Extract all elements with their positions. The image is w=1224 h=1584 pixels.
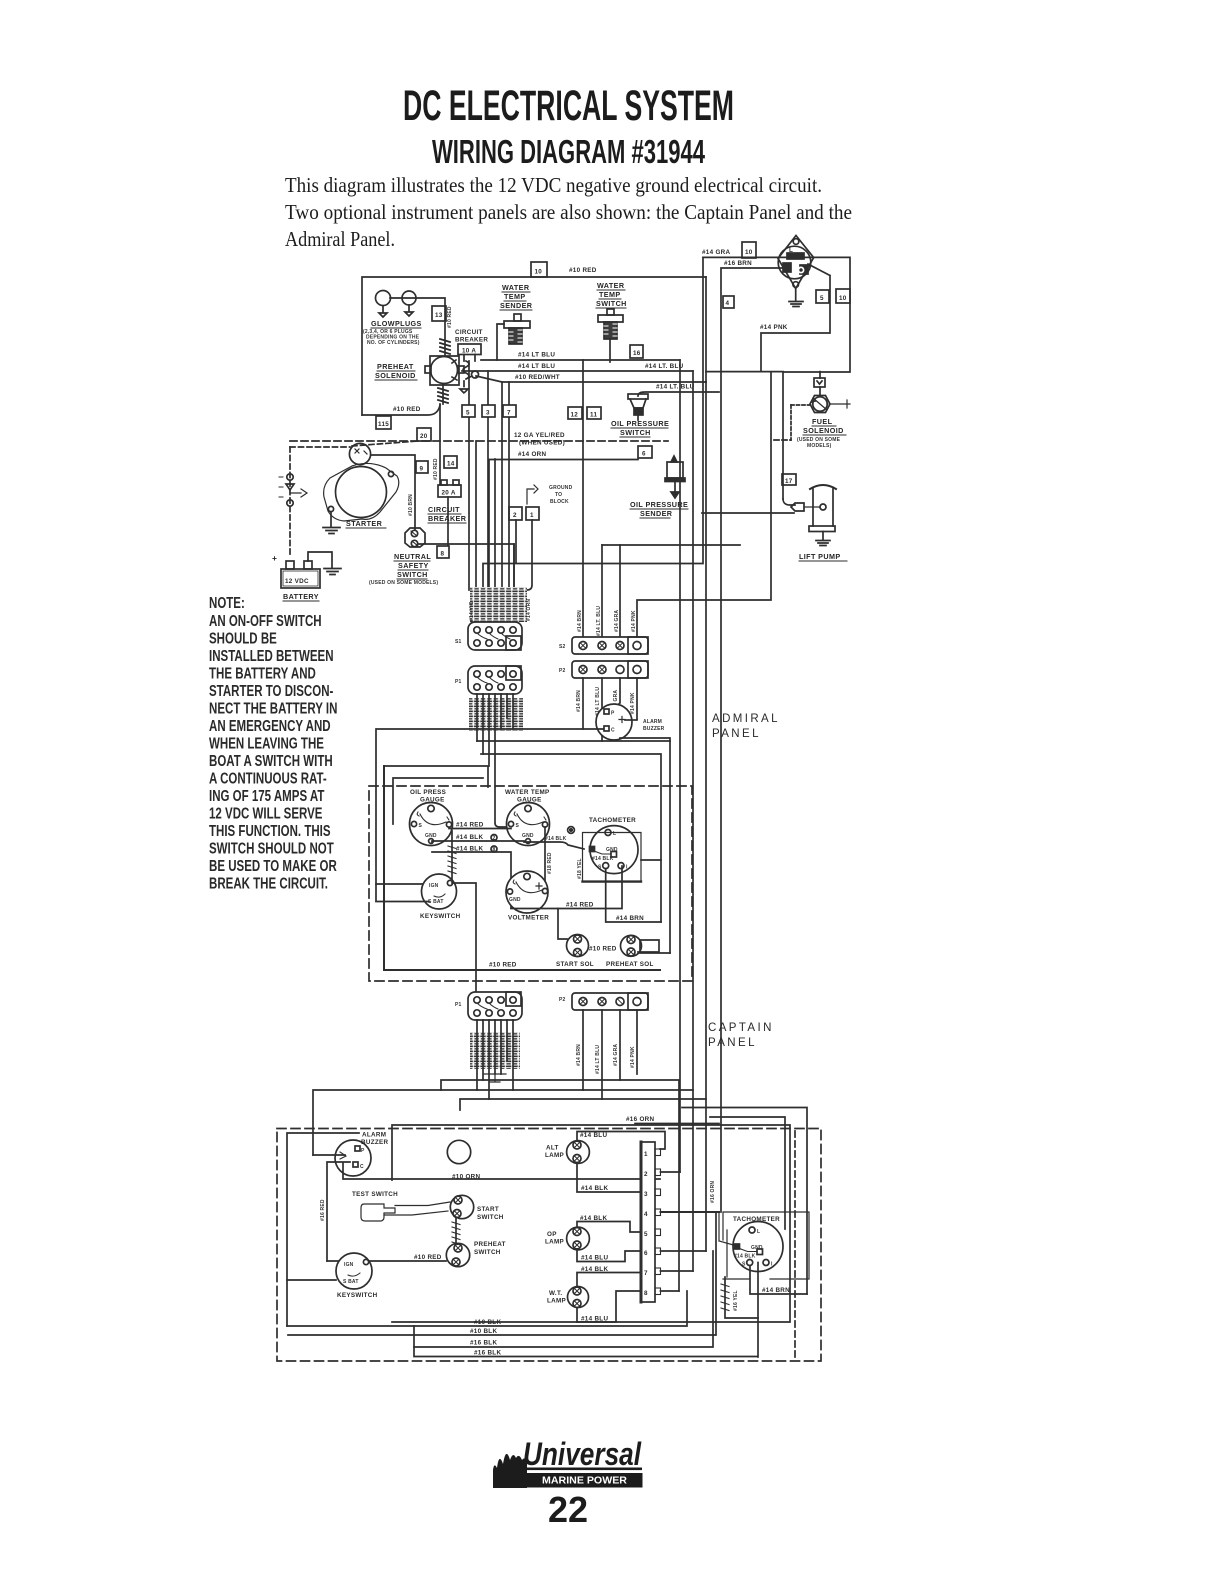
node box 2 [509,507,522,520]
wire into pump [702,512,794,514]
svg-text:20 A: 20 A [442,490,456,497]
svg-text:C: C [360,1164,364,1170]
node box 14 [444,456,457,468]
wire long vertical x680 [679,360,681,1172]
wire-label hatch block above S1 [470,587,527,622]
wire x670 bottom [640,952,670,954]
svg-text:5: 5 [820,295,824,302]
node box 6 [638,446,652,458]
svg-text:START SOL: START SOL [556,961,594,968]
svg-text:12 GA YEL/RED: 12 GA YEL/RED [514,432,565,439]
svg-text:P1: P1 [455,679,462,685]
svg-text:BREAKER: BREAKER [455,337,488,344]
wire y1099 [460,1099,706,1110]
node box 13 [432,306,446,321]
svg-text:S BAT: S BAT [343,1279,359,1285]
node box 5b [816,290,829,303]
Universal Marine Power logo [493,1436,643,1488]
ground to block symbol [527,485,538,504]
svg-text:8: 8 [441,551,445,558]
wire long vertical x693 [692,371,694,1271]
oil pressure sender OPS2 [671,456,677,462]
wire #14 RED gauges [449,828,511,830]
svg-text:SENDER: SENDER [500,301,533,310]
wire right-edge vertical x706 [705,277,707,382]
terminal strip TB1 [641,1142,655,1302]
svg-text:2: 2 [644,1171,648,1178]
wire start sol feed [558,909,567,940]
svg-text:12: 12 [571,412,579,419]
dashed separator line [290,440,668,442]
wire into buzzer [313,1154,345,1156]
svg-text:SHOULD BE: SHOULD BE [209,629,277,647]
svg-text:#18 RED: #18 RED [547,852,553,874]
wire op lamp top [577,1222,641,1233]
svg-text:#14 LT BLU: #14 LT BLU [518,352,555,359]
wire #16 YEL vertical hatched [725,1277,758,1318]
wt lamp L3 [568,1287,589,1308]
svg-text:#14 LT BLU: #14 LT BLU [595,1045,601,1074]
preheat solenoid lamp PS2 [621,935,642,956]
svg-text:PANEL: PANEL [712,728,761,740]
lift pump LP1 [783,499,795,505]
svg-text:TEMP: TEMP [599,290,621,299]
svg-text:S: S [598,865,602,871]
svg-text:TACHOMETER: TACHOMETER [589,817,636,824]
svg-text:C: C [611,728,615,734]
svg-text:START: START [477,1206,499,1213]
svg-text:PREHEAT: PREHEAT [474,1241,506,1248]
svg-text:7: 7 [644,1270,648,1277]
svg-text:#14 RED: #14 RED [456,822,484,829]
svg-text:#14 BLK: #14 BLK [545,836,567,842]
svg-text:NEUTRAL: NEUTRAL [394,552,431,561]
fuel solenoid FS1 [814,378,825,387]
svg-text:20: 20 [420,433,428,440]
svg-text:Two optional instrument panels: Two optional instrument panels are also … [285,200,852,224]
starter M1 solenoid [349,443,370,464]
wire y1117 [710,1117,785,1229]
svg-text:(USED ON SOME MODELS): (USED ON SOME MODELS) [369,580,438,586]
svg-text:#16 RED: #16 RED [320,1199,326,1221]
svg-text:#16 YEL: #16 YEL [733,1290,739,1311]
wires below P1 fanning [477,694,513,827]
svg-text:#14 BLK: #14 BLK [581,1185,608,1192]
wire tach right to x661 [641,859,661,861]
svg-text:ADMIRAL: ADMIRAL [712,713,780,725]
admiral keyswitch KS1 [422,874,457,909]
svg-text:TO: TO [555,492,562,498]
hatched wire between switches [455,1218,457,1248]
svg-text:IGN: IGN [344,1262,354,1268]
wire wt lamp bottom #14 BLU [577,1291,641,1322]
svg-text:#14 BRN: #14 BRN [576,690,582,712]
svg-text:LAMP: LAMP [545,1239,564,1246]
wires below captain P1 [477,1020,513,1099]
wire into tach left [719,1212,737,1246]
captain dashed box [277,1129,821,1362]
svg-text:7: 7 [507,410,511,417]
svg-text:(WHEN USED): (WHEN USED) [519,440,565,447]
svg-text:WATER: WATER [597,281,625,290]
svg-text:8: 8 [493,847,496,853]
wire #14 RED to tach [511,866,622,909]
wire y738 [620,738,670,741]
svg-text:AN ON-OFF SWITCH: AN ON-OFF SWITCH [209,611,322,629]
svg-text:#14 BLU: #14 BLU [581,1316,608,1323]
node box 10c [836,289,850,303]
wire #14 BRN tach bottom [606,869,661,922]
svg-text:CIRCUIT: CIRCUIT [455,329,483,336]
battery B1 [281,569,320,588]
node box 9 [416,461,428,473]
svg-text:GROUND: GROUND [549,485,573,491]
svg-text:P: P [611,711,615,717]
svg-text:#14 ORN: #14 ORN [518,451,547,458]
circuit breaker CB1 box 10A [458,344,481,355]
connector P1 captain [468,992,522,1020]
svg-text:KEYSWITCH: KEYSWITCH [420,913,461,920]
svg-text:6: 6 [642,451,646,458]
node box 8 [437,546,449,558]
wire y544 neutral run [419,544,514,590]
svg-text:3: 3 [486,410,490,417]
svg-text:PREHEAT: PREHEAT [377,362,414,371]
svg-text:#14 BRN: #14 BRN [616,915,644,922]
svg-text:L: L [789,247,793,254]
wire y1090 long [313,1090,693,1155]
svg-text:Admiral Panel.: Admiral Panel. [285,227,395,251]
svg-text:S1: S1 [455,639,462,645]
svg-text:#10 RED: #10 RED [414,1254,442,1261]
svg-text:#14 BLU: #14 BLU [581,1255,608,1262]
svg-text:P2: P2 [559,668,566,674]
starter M1 motor [336,467,387,518]
node box 10b [742,242,756,258]
svg-text:S: S [516,823,520,829]
glow plug 1 [376,291,391,306]
svg-text:1: 1 [530,512,534,519]
hatched wire #16 RED to keyswitch [451,831,453,883]
tachometer G3 box [583,833,642,882]
svg-text:12 VDC WILL SERVE: 12 VDC WILL SERVE [209,804,323,822]
strip wires right [661,1171,681,1173]
wire dashed vertical captain right [794,1131,796,1360]
svg-text:11: 11 [590,412,597,419]
connector S1 [468,622,522,650]
wire y766 run [384,766,488,787]
wire #14 GRA [703,257,850,499]
preheat solenoid PS1 [430,356,459,385]
svg-text:#14 GRA: #14 GRA [613,1044,619,1066]
svg-text:S: S [419,823,423,829]
svg-text:13: 13 [435,312,443,319]
wire bundle verticals above S1 [468,361,470,590]
wire starter solenoid to neutral switch [371,455,415,529]
svg-text:#16 ORN: #16 ORN [626,1116,655,1123]
svg-text:#14 BRN: #14 BRN [577,610,583,632]
battery ground [308,552,341,575]
svg-text:#14 LT BLU: #14 LT BLU [518,363,555,370]
svg-text:BREAK THE CIRCUIT.: BREAK THE CIRCUIT. [209,874,328,892]
svg-text:WHEN LEAVING THE: WHEN LEAVING THE [209,734,324,752]
svg-text:A CONTINUOUS RAT-: A CONTINUOUS RAT- [209,769,327,787]
alt lamp L1 [567,1141,590,1164]
keyswitch wires [376,884,429,902]
op lamp L2 [567,1227,590,1250]
svg-text:W.T.: W.T. [549,1290,562,1297]
svg-text:SAFETY: SAFETY [398,561,429,570]
svg-text:FUEL: FUEL [812,417,833,426]
wire-label hatch block below captain P1 [470,1032,520,1069]
svg-text:This diagram illustrates the 1: This diagram illustrates the 12 VDC nega… [285,173,822,197]
svg-text:LAMP: LAMP [545,1152,564,1159]
svg-text:8: 8 [644,1290,648,1297]
wire y754 run [481,754,661,922]
alternator ALT1 [778,236,814,289]
svg-text:OIL PRESS: OIL PRESS [410,789,446,796]
water temp switch symbol [607,309,614,315]
wire glowplugs to solenoid [390,298,445,356]
connector P2 captain [572,993,648,1010]
wire #10 RED/WHT [476,376,706,382]
svg-text:ING OF 175 AMPS AT: ING OF 175 AMPS AT [209,786,325,804]
svg-text:ALARM: ALARM [362,1132,386,1139]
wire #18 RED right of WT gauge [544,827,546,888]
node box 17 [782,474,796,485]
svg-text:PREHEAT SOL: PREHEAT SOL [606,961,654,968]
svg-text:BUZZER: BUZZER [361,1139,388,1146]
oil pressure gauge G1 [410,803,453,846]
wire: outer box top (#10 RED feed) [362,277,706,415]
wire alt lamp top [577,1132,665,1150]
circled terminal left of tach [568,827,575,834]
svg-text:WATER TEMP: WATER TEMP [505,789,550,796]
node box 10 [531,262,547,277]
captain tachometer G5 box [723,1212,809,1279]
connector S2 [572,637,648,654]
svg-text:CAPTAIN: CAPTAIN [708,1022,774,1034]
water temp sender symbol [514,314,521,321]
svg-text:SWITCH: SWITCH [596,299,627,308]
wire y741 run [477,741,670,953]
svg-text:VOLTMETER: VOLTMETER [508,915,549,922]
node box 20 [417,428,431,441]
wire tach S down [757,1263,759,1358]
svg-text:9: 9 [420,466,424,473]
svg-text:SWITCH: SWITCH [477,1214,504,1221]
svg-text:+: + [272,553,277,563]
svg-text:IGN: IGN [429,883,439,889]
wire wt lamp top [577,1273,641,1288]
wire y1080 [441,1080,679,1291]
wire long vertical x706b [705,382,707,1251]
captain inner box [287,1125,790,1326]
svg-text:#10 BLK: #10 BLK [474,1319,501,1326]
svg-text:SENDER: SENDER [640,509,673,518]
svg-text:10: 10 [839,295,847,302]
svg-text:#14 PNK: #14 PNK [631,610,637,632]
svg-text:OIL PRESSURE: OIL PRESSURE [611,419,669,428]
NOTE text block [209,593,337,892]
svg-text:BE USED TO MAKE OR: BE USED TO MAKE OR [209,856,337,874]
admiral panel dashed box [369,786,692,981]
svg-text:SWITCH: SWITCH [397,570,428,579]
svg-text:#10 RED: #10 RED [589,946,617,953]
svg-text:STARTER TO DISCON-: STARTER TO DISCON- [209,681,334,699]
svg-text:ALT: ALT [546,1145,559,1152]
svg-text:#14 BLK: #14 BLK [592,856,614,862]
svg-text:WATER: WATER [502,283,530,292]
svg-text:#14 LT. BLU: #14 LT. BLU [645,363,684,370]
svg-text:GLOWPLUGS: GLOWPLUGS [371,319,422,328]
svg-text:NO. OF CYLINDERS): NO. OF CYLINDERS) [367,340,420,346]
svg-text:#14 BLK: #14 BLK [456,846,483,853]
svg-text:#14 LT. BLU: #14 LT. BLU [596,606,602,636]
svg-text:#14 GRA: #14 GRA [614,610,620,632]
svg-text:#18 YEL: #18 YEL [577,858,583,879]
admiral panel inner box [384,766,660,970]
svg-text:#14 GRA: #14 GRA [702,249,731,256]
svg-text:3: 3 [644,1191,648,1198]
svg-text:#10 RED: #10 RED [569,267,597,274]
alarm buzzer AB1 [596,704,632,740]
wire y1179 long [343,1163,660,1179]
on-off switch (note) [287,474,293,480]
wire sender down [497,324,504,360]
wire #16 RED vertical [327,1162,350,1261]
svg-text:L: L [613,831,616,837]
svg-text:#14 BRN: #14 BRN [576,1044,582,1066]
svg-text:BREAKER: BREAKER [428,514,467,523]
svg-text:DC ELECTRICAL SYSTEM: DC ELECTRICAL SYSTEM [403,82,734,130]
svg-text:4: 4 [644,1211,648,1218]
dashed battery switch leg [290,446,350,448]
wire #14 LT BLU to oil pressure switch [638,392,719,396]
connector P2 [572,661,648,678]
svg-text:#16 BRN: #16 BRN [724,260,752,267]
preheat switch SW2 [446,1243,469,1266]
svg-text:#14 PNK: #14 PNK [630,692,636,714]
node box 1 [526,507,539,520]
svg-text:5: 5 [466,410,470,417]
svg-text:ALARM: ALARM [643,719,662,725]
svg-text:INSTALLED BETWEEN: INSTALLED BETWEEN [209,646,334,664]
wire y1107 [682,1108,807,1295]
svg-text:TEMP: TEMP [504,292,526,301]
svg-text:L: L [757,1229,760,1235]
wire long vertical x703 / y563 run [483,257,703,590]
svg-text:THIS FUNCTION. THIS: THIS FUNCTION. THIS [209,821,331,839]
svg-text:S BAT: S BAT [428,899,444,905]
svg-text:10: 10 [535,269,543,276]
svg-text:NECT THE BATTERY IN: NECT THE BATTERY IN [209,699,337,717]
svg-text:S2: S2 [559,644,566,650]
wire #10 RED keyswitch to preheat [327,1260,446,1262]
svg-text:SOLENOID: SOLENOID [803,426,844,435]
svg-text:#14 BLK: #14 BLK [456,834,483,841]
svg-text:#14 LT. BLU: #14 LT. BLU [656,384,695,391]
oil pressure switch OPS1 [628,394,648,399]
wire y1123 #16 ORN [635,1123,719,1125]
svg-text:THE BATTERY AND: THE BATTERY AND [209,664,316,682]
svg-text:OP: OP [547,1231,557,1238]
svg-text:#10 BRN: #10 BRN [408,494,414,516]
node box 115 [376,416,391,429]
wire breaker to right (#14 LT BLU) [481,359,680,361]
svg-text:BLOCK: BLOCK [550,499,569,505]
svg-text:16: 16 [633,350,641,357]
svg-text:BOAT A SWITCH WITH: BOAT A SWITCH WITH [209,751,333,769]
start solenoid lamp SS1 [567,935,589,957]
svg-text:115: 115 [378,421,389,428]
svg-text:LIFT PUMP: LIFT PUMP [799,552,841,561]
wire #10 RED starter feed [362,405,440,415]
svg-text:17: 17 [785,478,793,485]
svg-text:12 VDC: 12 VDC [285,578,309,585]
svg-text:#14 ORN: #14 ORN [526,599,532,621]
svg-text:5: 5 [644,1231,648,1238]
svg-text:#14 VIO: #14 VIO [469,601,475,621]
svg-text:2: 2 [493,836,496,842]
hatched lead solenoid bottom [442,385,444,404]
wire solenoid to right (#14 LT BLU) [462,370,783,373]
svg-text:#16 BLK: #16 BLK [474,1350,501,1357]
wire alternator to #14 PNK [761,264,830,371]
wire solenoid bottom down to 20A breaker [439,404,441,485]
neutral safety switch NS1 [405,528,425,547]
alternator ground [789,287,803,306]
svg-text:#10 RED: #10 RED [447,306,453,328]
tachometer G3 [590,826,638,874]
svg-text:#16 ORN: #16 ORN [710,1181,716,1203]
svg-text:#10 RED: #10 RED [433,458,439,480]
svg-text:TEST SWITCH: TEST SWITCH [352,1191,398,1198]
wires below P2 [583,678,637,741]
svg-text:MODELS): MODELS) [807,443,832,449]
wire #14 ORN [489,460,638,591]
svg-text:#14 PNK: #14 PNK [760,324,788,331]
svg-text:NOTE:: NOTE: [209,593,245,611]
svg-text:STARTER: STARTER [346,519,383,528]
wire y778 run [393,778,483,824]
node box 5 [462,405,475,417]
svg-text:P2: P2 [559,997,566,1003]
wires below captain P2 [583,1010,637,1099]
wire #16 BRN [721,268,784,1212]
svg-text:MARINE POWER: MARINE POWER [542,1476,627,1487]
svg-text:AN EMERGENCY AND: AN EMERGENCY AND [209,716,331,734]
svg-text:LAMP: LAMP [547,1298,566,1305]
hour meter hole circle [447,1140,470,1163]
svg-text:#14 BLK: #14 BLK [734,1254,756,1260]
starter ground [323,512,340,534]
svg-text:WIRING DIAGRAM #31944: WIRING DIAGRAM #31944 [432,134,705,171]
wire #14 BLK w/ tag 8 [432,852,511,908]
svg-text:Universal: Universal [523,1436,642,1472]
wires into S2 [583,360,620,637]
circuit breaker CB2 20A [438,485,461,497]
svg-text:SWITCH: SWITCH [620,428,651,437]
node box 3 [482,405,495,417]
svg-text:S: S [742,1262,746,1268]
wire #14 BRN captain tach [750,1266,807,1295]
node box 11 [587,407,601,419]
svg-text:6: 6 [644,1250,648,1257]
svg-text:#10 BLK: #10 BLK [470,1328,497,1335]
svg-text:10: 10 [745,249,753,256]
svg-text:4: 4 [726,300,730,307]
